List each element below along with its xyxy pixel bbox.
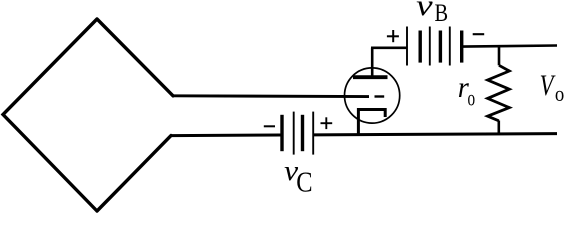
ro top lead [498, 46, 501, 65]
wire: battery vB to top right end [462, 46, 557, 47]
ro zigzag [488, 65, 510, 121]
vB plate 6 (short thick, negative) [460, 31, 463, 63]
svg-text:o: o [468, 85, 476, 110]
triode cathode [358, 110, 385, 135]
triode U1 envelope [345, 68, 400, 123]
wire: bottom (battery vC through cathode junction to right end) [313, 134, 557, 135]
resistor ro [488, 46, 510, 135]
triode grid dash [375, 95, 385, 97]
vB plate 4 (short thick) [439, 31, 442, 63]
plus sign (vB) [387, 30, 399, 42]
vC plate 2 (tall thin, positive) [293, 112, 295, 155]
antenna loop diamond [3, 19, 173, 211]
vC plate 1 (short thick, negative) [280, 115, 283, 151]
vB plate 3 (tall thin) [429, 27, 431, 66]
minus sign (vB) [473, 33, 485, 35]
plus sign (vC) [321, 117, 333, 129]
battery vB [407, 27, 462, 66]
vB plate 1 (tall thin, positive) [406, 27, 408, 66]
svg-text:C: C [296, 167, 312, 198]
wire: plate lead up [371, 48, 374, 77]
svg-text:v: v [416, 0, 433, 22]
svg-text:B: B [435, 0, 449, 27]
battery vC [282, 112, 313, 155]
svg-text:o: o [555, 81, 564, 106]
wire: plate to battery vB [371, 46, 407, 49]
vB plate 5 (tall thin) [449, 27, 451, 66]
vC plate 4 (tall thin) [312, 112, 314, 155]
vB plate 2 (short thick) [419, 31, 422, 63]
minus sign (vC) [264, 125, 275, 127]
wire: grid lead (antenna top terminal to triode grid) [173, 94, 369, 98]
vC plate 3 (short thick) [301, 115, 304, 151]
triode plate bar [353, 75, 388, 79]
wire: bottom left (antenna lower terminal to battery vC) [171, 134, 281, 138]
ro bottom lead [497, 121, 500, 135]
